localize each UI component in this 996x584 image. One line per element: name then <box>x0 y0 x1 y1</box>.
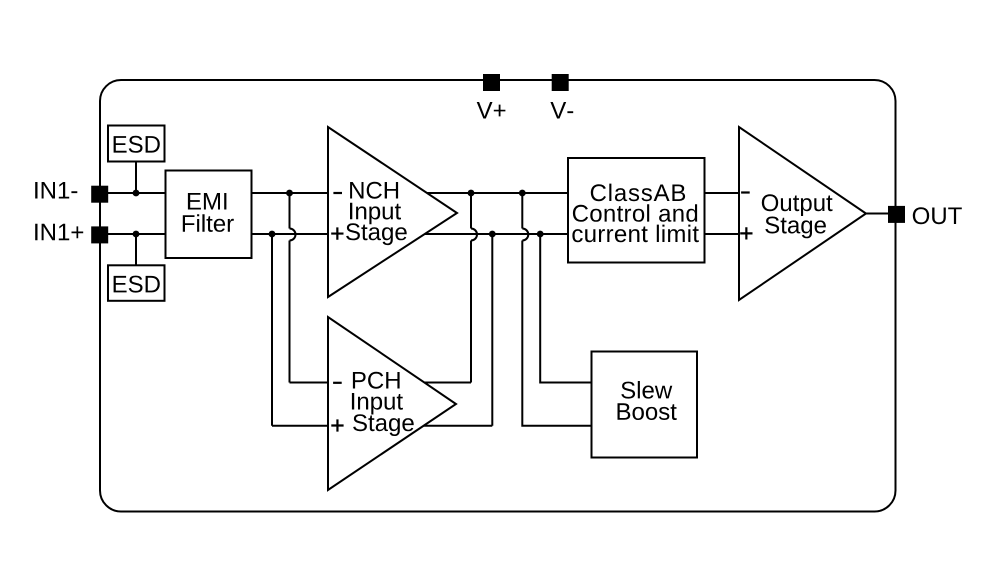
label EMI <box>188 193 227 210</box>
pin OUT square <box>888 206 905 223</box>
box Slew Boost <box>592 352 698 458</box>
chip boundary rounded rect <box>100 80 896 512</box>
box EMI Filter <box>166 171 252 259</box>
label OUT <box>913 207 962 224</box>
junction dot x=491.5 on y=234 <box>489 231 496 238</box>
plus sign Output Stage <box>740 227 752 239</box>
minus sign PCH <box>333 382 342 384</box>
minus sign NCH <box>333 192 342 194</box>
wire vertical x=522.3 upper seg <box>521 193 523 229</box>
wire IN1+ node to ESD bottom <box>135 234 137 265</box>
label V+ <box>477 102 506 119</box>
wire PCH - horizontal y=382.5 <box>290 382 472 384</box>
label Stage (Output) <box>765 217 826 239</box>
wire Output Stage apex to OUT pin <box>866 213 890 215</box>
pin V+ square <box>483 74 500 91</box>
junction dot IN1- / ESD top <box>133 190 140 197</box>
label Boost <box>618 403 677 420</box>
wire PCH + horizontal y=425.7 <box>272 425 492 427</box>
junction dot x=272 on y=234 <box>269 231 276 238</box>
junction dot x=289.5 on y=193 <box>286 190 293 197</box>
wire hop at x=522.3 over y=234 <box>522 229 528 241</box>
label ESD bottom <box>114 276 160 293</box>
junction dot x=522.3 on y=193 <box>519 190 526 197</box>
plus sign NCH <box>331 227 343 239</box>
label IN1+ <box>35 224 83 241</box>
wire hop at x=471 over y=234 <box>471 229 477 241</box>
box ESD bottom <box>108 265 165 301</box>
box ESD top <box>108 126 165 162</box>
label Slew <box>621 381 672 399</box>
label Control and <box>573 204 697 222</box>
label current limit <box>572 225 698 243</box>
label Output <box>762 194 833 216</box>
label Input (PCH) <box>352 393 403 415</box>
box ClassAB Control and current limit <box>568 158 705 263</box>
op-amp PCH Input Stage triangle <box>328 317 456 490</box>
wire ESD top to IN1- node <box>135 162 137 194</box>
wire vertical x=471 upper seg <box>470 193 472 229</box>
wire vertical x=540.2 to Slew Boost upper input <box>540 234 591 383</box>
wire EMI Filter out+ to ClassAB (lower bus y=234) <box>252 233 569 235</box>
minus sign Output Stage <box>741 191 750 193</box>
plus sign PCH <box>331 419 343 431</box>
wire vertical x=289.5 lower seg to PCH - level <box>289 241 291 383</box>
wire EMI Filter out- to ClassAB (upper bus y=193) <box>252 192 569 194</box>
label Filter <box>183 214 234 232</box>
pin IN1- square <box>91 186 108 203</box>
wire ClassAB to Output Stage - input <box>705 192 740 194</box>
wire vertical x=272 down to PCH + level <box>271 234 273 426</box>
op-amp NCH Input Stage triangle <box>328 127 457 297</box>
label ESD top <box>114 136 160 153</box>
junction dot x=471 on y=193 <box>468 190 475 197</box>
label PCH <box>353 372 400 389</box>
wire vertical x=471 lower seg <box>470 241 472 383</box>
label ClassAB <box>591 184 685 202</box>
label Stage (PCH) <box>353 414 414 436</box>
wire vertical x=289.5 upper seg <box>289 193 291 229</box>
op-amp Output Stage triangle <box>739 127 866 300</box>
junction dot x=540.2 on y=234 <box>537 231 544 238</box>
wire IN1+ to EMI Filter (net IN1+) <box>100 233 166 235</box>
label Stage (NCH) <box>346 223 407 245</box>
wire IN1- to EMI Filter (net IN1-) <box>100 192 166 194</box>
junction dot IN1+ / ESD bottom <box>133 231 140 238</box>
pin V- square <box>552 74 569 91</box>
label IN1- <box>35 182 77 199</box>
wire vertical x=522.3 lower seg to Slew Boost lower input <box>522 241 591 426</box>
label V- <box>550 102 573 119</box>
wire hop at x=289.5 over y=234 <box>290 229 296 241</box>
wire vertical x=491.5 <box>491 234 493 426</box>
label Input (NCH) <box>350 203 401 225</box>
pin IN1+ square <box>91 226 108 243</box>
wire ClassAB to Output Stage + input <box>705 233 740 235</box>
label NCH <box>350 182 398 199</box>
